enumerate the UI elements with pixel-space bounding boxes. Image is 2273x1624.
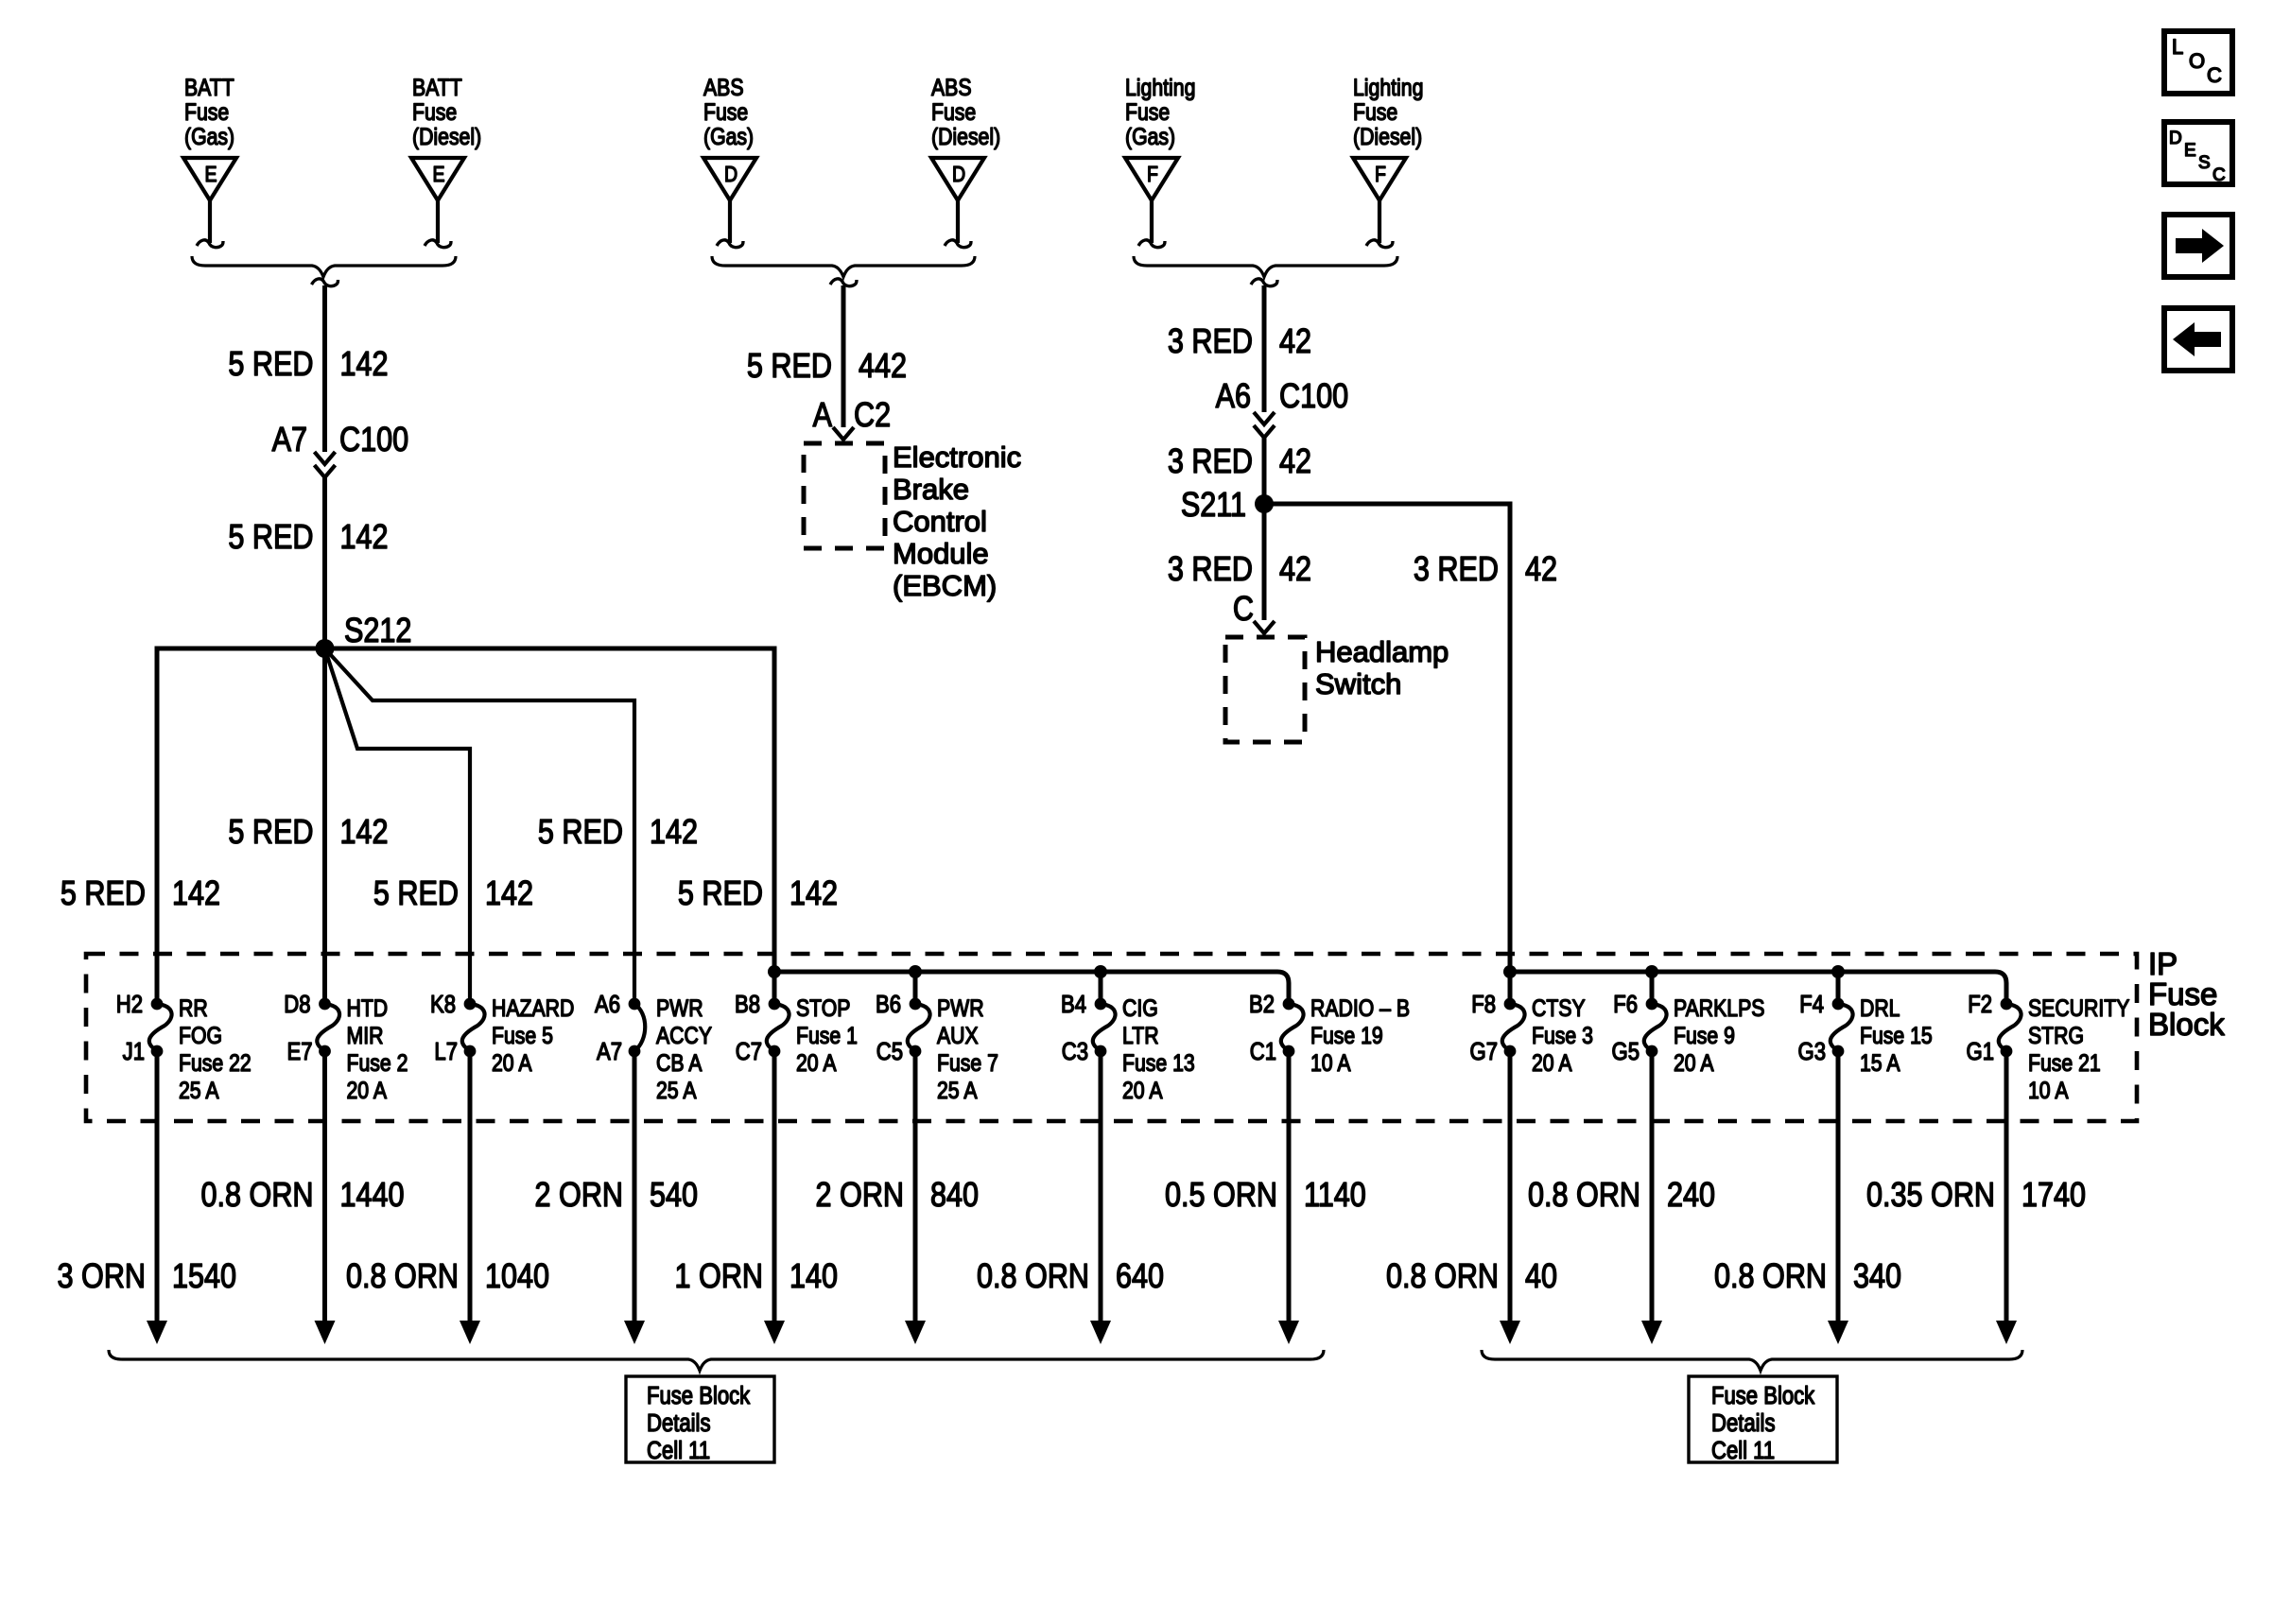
label 5 RED 142 (STOP feed) — [678, 875, 838, 913]
junction F6 bus — [1645, 965, 1658, 978]
svg-text:42: 42 — [1279, 323, 1311, 361]
svg-text:(Gas): (Gas) — [184, 123, 234, 149]
wire 5 RED 142 (below C100) — [322, 477, 327, 648]
svg-text:15 A: 15 A — [1860, 1049, 1900, 1076]
bus wire inside fuse block feeding CTSY/PARKLPS/DRL/SECURITY — [1510, 972, 2006, 1004]
wire 5 RED 442 (ABS feed) — [842, 285, 846, 427]
svg-text:D: D — [2169, 129, 2182, 148]
svg-text:O: O — [2189, 49, 2205, 73]
svg-text:Fuse: Fuse — [1353, 98, 1397, 125]
svg-text:25 A: 25 A — [179, 1077, 219, 1103]
svg-text:840: 840 — [930, 1177, 979, 1215]
svg-text:E: E — [204, 163, 217, 187]
svg-text:Fuse: Fuse — [1125, 98, 1170, 125]
brace grouping left fuse outputs — [109, 1350, 1324, 1371]
svg-text:H2: H2 — [116, 991, 143, 1018]
svg-text:C: C — [2212, 165, 2226, 185]
svg-text:STRG: STRG — [2028, 1022, 2084, 1048]
brace joining Lighting fuses — [1134, 256, 1397, 277]
svg-text:D: D — [952, 163, 965, 187]
svg-text:10 A: 10 A — [2028, 1077, 2069, 1103]
svg-text:142: 142 — [650, 814, 698, 852]
brace grouping right fuse outputs — [1482, 1350, 2022, 1371]
IP Fuse Block dashed boundary — [86, 954, 2137, 1121]
svg-text:Lighting: Lighting — [1353, 74, 1423, 100]
svg-text:D8: D8 — [284, 991, 310, 1018]
svg-text:142: 142 — [340, 346, 389, 384]
svg-text:142: 142 — [485, 875, 533, 913]
svg-text:Module: Module — [893, 537, 989, 570]
svg-text:(Gas): (Gas) — [1125, 123, 1175, 149]
junction B6 bus — [909, 965, 922, 978]
svg-text:F8: F8 — [1471, 991, 1496, 1018]
svg-text:ABS: ABS — [931, 74, 972, 100]
label 0.8 ORN 640 — [977, 1258, 1164, 1296]
fuse F2 HTD MIR 20A pins D8/E7 — [284, 991, 408, 1103]
svg-text:G5: G5 — [1612, 1038, 1640, 1065]
svg-text:5 RED: 5 RED — [373, 875, 459, 913]
svg-text:HTD: HTD — [347, 994, 389, 1021]
wire hook below ABS brace — [830, 279, 857, 286]
Headlamp Switch — [1225, 635, 1449, 742]
connector C100 pin A7 (in-line) — [272, 422, 409, 477]
label 5 RED 142 — [228, 519, 388, 557]
connector C100 pin A6 (in-line) — [1216, 378, 1349, 438]
wire 2 ORN 540 output from A7 — [624, 1051, 645, 1344]
svg-text:20 A: 20 A — [347, 1077, 388, 1103]
svg-text:Fuse Block: Fuse Block — [1711, 1382, 1815, 1409]
junction B4 bus — [1094, 965, 1107, 978]
bus wire inside fuse block feeding STOP/PWR AUX/CIG LTR/RADIO-B — [774, 972, 1289, 1004]
svg-text:2 ORN: 2 ORN — [535, 1177, 623, 1215]
svg-text:0.8 ORN: 0.8 ORN — [977, 1258, 1089, 1296]
svg-text:C100: C100 — [1279, 378, 1348, 416]
svg-text:K8: K8 — [430, 991, 456, 1018]
svg-text:0.8 ORN: 0.8 ORN — [1386, 1258, 1499, 1296]
fuse F1 STOP 20A pins B8/C7 — [735, 991, 858, 1076]
svg-text:ABS: ABS — [703, 74, 744, 100]
svg-text:C: C — [1233, 591, 1254, 629]
fuse F9 PARKLPS 20A pins F6/G5 — [1612, 991, 1765, 1076]
svg-text:DRL: DRL — [1860, 994, 1900, 1021]
wire 0.8 ORN 40 output from G7 — [1500, 1051, 1520, 1344]
label 0.8 ORN 240 — [1528, 1177, 1715, 1215]
brace joining BATT fuses — [192, 256, 456, 277]
svg-text:Fuse: Fuse — [412, 98, 457, 125]
svg-text:5 RED: 5 RED — [538, 814, 623, 852]
fuse F13 CIG LTR 20A pins B4/C3 — [1061, 991, 1195, 1103]
wire 0.8 ORN 340 output from G3 — [1828, 1051, 1848, 1344]
svg-text:B6: B6 — [876, 991, 901, 1018]
wire 3 RED 42 (C100 to S211) — [1262, 438, 1267, 504]
svg-text:(Gas): (Gas) — [703, 123, 754, 149]
svg-text:D: D — [724, 163, 737, 187]
svg-text:BATT: BATT — [412, 74, 462, 100]
svg-text:A7: A7 — [272, 422, 307, 459]
svg-text:Fuse 1: Fuse 1 — [796, 1022, 858, 1048]
svg-text:1540: 1540 — [172, 1258, 236, 1296]
svg-text:20 A: 20 A — [796, 1049, 837, 1076]
svg-text:L: L — [2172, 35, 2183, 59]
svg-text:C2: C2 — [854, 397, 891, 435]
wire 3 ORN 1540 output from J1 — [147, 1051, 167, 1344]
svg-text:LTR: LTR — [1122, 1022, 1159, 1048]
svg-text:0.8 ORN: 0.8 ORN — [1528, 1177, 1640, 1215]
svg-text:C: C — [2207, 63, 2222, 87]
wire 3 RED 42 (S211 to headlamp switch) — [1262, 504, 1267, 620]
svg-text:3 RED: 3 RED — [1414, 551, 1499, 589]
svg-text:CIG: CIG — [1122, 994, 1158, 1021]
svg-text:25 A: 25 A — [656, 1077, 697, 1103]
fuse F22 RR FOG 25A pins H2/J1 — [116, 991, 252, 1103]
Electronic Brake Control Module (EBCM) — [804, 441, 1021, 602]
icon box DESC — [2164, 122, 2232, 185]
svg-text:3 RED: 3 RED — [1168, 323, 1253, 361]
svg-text:5 RED: 5 RED — [61, 875, 146, 913]
svg-text:42: 42 — [1279, 551, 1311, 589]
svg-text:20 A: 20 A — [1532, 1049, 1572, 1076]
svg-text:Fuse 2: Fuse 2 — [347, 1049, 408, 1076]
svg-text:SECURITY: SECURITY — [2028, 994, 2129, 1021]
svg-text:240: 240 — [1667, 1177, 1715, 1215]
svg-text:Fuse 19: Fuse 19 — [1310, 1022, 1383, 1048]
junction F4 bus — [1831, 965, 1845, 978]
label 2 ORN 540 — [535, 1177, 698, 1215]
label 5 RED 142 (HAZARD feed) — [373, 875, 533, 913]
label 5 RED 142 — [228, 346, 388, 384]
svg-text:J1: J1 — [123, 1038, 145, 1065]
fuse F21 SECURITY STRG 10A pins F2/G1 — [1967, 991, 2130, 1103]
svg-text:Switch: Switch — [1315, 667, 1401, 700]
svg-text:Fuse 21: Fuse 21 — [2028, 1049, 2101, 1076]
svg-text:Cell 11: Cell 11 — [647, 1437, 710, 1464]
svg-text:142: 142 — [340, 814, 389, 852]
junction B8 bus — [768, 965, 781, 978]
svg-text:10 A: 10 A — [1310, 1049, 1351, 1076]
svg-text:F4: F4 — [1799, 991, 1824, 1018]
svg-text:STOP: STOP — [796, 994, 850, 1021]
svg-text:C100: C100 — [339, 422, 408, 459]
svg-text:S212: S212 — [344, 613, 411, 650]
svg-text:0.8 ORN: 0.8 ORN — [346, 1258, 459, 1296]
svg-text:C7: C7 — [736, 1038, 762, 1065]
wire 0.8 ORN 640 output from C3 — [1090, 1051, 1111, 1344]
label 3 ORN 1540 — [58, 1258, 237, 1296]
label IP Fuse Block — [2148, 946, 2225, 1042]
fuse F5 HAZARD 20A pins K8/L7 — [430, 991, 574, 1076]
label 3 RED 42 — [1168, 443, 1311, 481]
svg-text:Fuse Block: Fuse Block — [647, 1382, 751, 1409]
icon box arrow right — [2164, 215, 2232, 277]
svg-text:5 RED: 5 RED — [228, 519, 313, 557]
label 5 RED 142 (PWR ACCY feed) — [538, 814, 698, 852]
svg-text:3 RED: 3 RED — [1168, 443, 1253, 481]
svg-text:BATT: BATT — [184, 74, 234, 100]
label 1 ORN 140 — [675, 1258, 838, 1296]
svg-text:Fuse 15: Fuse 15 — [1860, 1022, 1933, 1048]
fuse F19 RADIO-B 10A pins B2/C1 — [1249, 991, 1410, 1076]
connector C2 pin A into EBCM — [813, 397, 892, 440]
svg-text:Lighting: Lighting — [1125, 74, 1195, 100]
svg-text:F2: F2 — [1968, 991, 1992, 1018]
label 0.8 ORN 1040 — [346, 1258, 549, 1296]
svg-text:Fuse: Fuse — [184, 98, 229, 125]
label 3 RED 42 — [1168, 551, 1311, 589]
wire hook below BATT brace — [312, 279, 338, 286]
svg-text:B2: B2 — [1249, 991, 1275, 1018]
svg-text:G1: G1 — [1967, 1038, 1994, 1065]
svg-text:Fuse: Fuse — [931, 98, 976, 125]
fuse F15 DRL 15A pins F4/G3 — [1798, 991, 1933, 1076]
svg-text:40: 40 — [1525, 1258, 1557, 1296]
svg-text:PWR: PWR — [937, 994, 984, 1021]
svg-text:G7: G7 — [1470, 1038, 1498, 1065]
svg-text:25 A: 25 A — [937, 1077, 978, 1103]
svg-text:140: 140 — [789, 1258, 838, 1296]
wire 0.8 ORN 1440 output from E7 — [315, 1051, 336, 1344]
svg-text:L7: L7 — [434, 1038, 458, 1065]
wire S212 straight down to HTD MIR feed — [322, 648, 327, 1004]
svg-text:Brake: Brake — [893, 473, 969, 506]
svg-text:RADIO – B: RADIO – B — [1310, 994, 1410, 1021]
svg-text:PWR: PWR — [656, 994, 703, 1021]
svg-text:3 ORN: 3 ORN — [58, 1258, 146, 1296]
svg-text:42: 42 — [1279, 443, 1311, 481]
wire 0.35 ORN 1740 output from G1 — [1996, 1051, 2017, 1344]
svg-text:HAZARD: HAZARD — [492, 994, 574, 1021]
svg-text:B8: B8 — [735, 991, 760, 1018]
label 0.5 ORN 1140 — [1165, 1177, 1366, 1215]
svg-text:3 RED: 3 RED — [1168, 551, 1253, 589]
svg-text:20 A: 20 A — [1674, 1049, 1714, 1076]
svg-text:S: S — [2198, 153, 2211, 173]
svg-text:(EBCM): (EBCM) — [893, 569, 997, 602]
svg-text:A7: A7 — [597, 1038, 622, 1065]
svg-text:A6: A6 — [1216, 378, 1251, 416]
svg-text:1740: 1740 — [2021, 1177, 2086, 1215]
fuse F3 CTSY 20A pins F8/G7 — [1470, 991, 1593, 1076]
wire 3 RED 42 (Lighting feed) — [1262, 285, 1267, 412]
brace joining ABS fuses — [712, 256, 975, 277]
svg-text:E7: E7 — [286, 1038, 312, 1065]
label 5 RED 142 (HTD MIR feed) — [228, 814, 388, 852]
svg-text:1 ORN: 1 ORN — [675, 1258, 763, 1296]
svg-text:C1: C1 — [1250, 1038, 1276, 1065]
svg-text:F6: F6 — [1613, 991, 1638, 1018]
wire branch left from S212 to RR FOG feed — [157, 648, 325, 1004]
wire 0.8 ORN 1040 output from L7 — [460, 1051, 480, 1344]
svg-text:Cell 11: Cell 11 — [1711, 1437, 1775, 1464]
svg-text:(Diesel): (Diesel) — [412, 123, 481, 149]
svg-text:Fuse 7: Fuse 7 — [937, 1049, 998, 1076]
icon box arrow left — [2164, 308, 2232, 371]
svg-text:ACCY: ACCY — [656, 1022, 712, 1048]
splice S212 — [316, 613, 412, 658]
label 5 RED 142 (RR FOG feed) — [61, 875, 220, 913]
svg-text:5 RED: 5 RED — [678, 875, 763, 913]
svg-text:0.35 ORN: 0.35 ORN — [1866, 1177, 1995, 1215]
svg-text:AUX: AUX — [937, 1022, 979, 1048]
svg-text:C5: C5 — [876, 1038, 903, 1065]
wire branch right from S212 to STOP feed — [325, 648, 775, 1004]
Fuse Block Details Cell 11 (left) — [626, 1376, 774, 1464]
svg-text:1040: 1040 — [485, 1258, 549, 1296]
svg-text:MIR: MIR — [347, 1022, 384, 1048]
wire diagonal branch from S212 to HAZARD feed — [325, 648, 471, 1004]
wire 2 ORN 840 output from C5 — [905, 1051, 926, 1344]
svg-text:F: F — [1147, 163, 1158, 187]
label 0.8 ORN 340 — [1714, 1258, 1901, 1296]
svg-text:Fuse 9: Fuse 9 — [1674, 1022, 1735, 1048]
wire 1 ORN 140 output from C7 — [764, 1051, 785, 1344]
svg-text:142: 142 — [172, 875, 220, 913]
connector pin C into headlamp switch — [1233, 591, 1275, 633]
Fuse Block Details Cell 11 (right) — [1689, 1376, 1837, 1464]
svg-text:E: E — [2184, 141, 2196, 161]
svg-text:Block: Block — [2148, 1007, 2225, 1042]
svg-text:540: 540 — [650, 1177, 698, 1215]
svg-text:Headlamp: Headlamp — [1315, 635, 1449, 668]
svg-text:S211: S211 — [1181, 487, 1246, 525]
svg-text:Fuse 22: Fuse 22 — [179, 1049, 252, 1076]
svg-text:20 A: 20 A — [492, 1049, 532, 1076]
svg-text:20 A: 20 A — [1122, 1077, 1163, 1103]
svg-text:340: 340 — [1853, 1258, 1901, 1296]
svg-text:CB A: CB A — [656, 1049, 703, 1076]
svg-text:142: 142 — [340, 519, 389, 557]
label 3 RED 42 (right branch) — [1414, 551, 1557, 589]
wire 0.5 ORN 1140 output from C1 — [1278, 1051, 1299, 1344]
svg-text:42: 42 — [1525, 551, 1557, 589]
svg-text:A6: A6 — [595, 991, 620, 1018]
svg-text:FOG: FOG — [179, 1022, 222, 1048]
svg-text:C3: C3 — [1062, 1038, 1088, 1065]
svg-text:A: A — [813, 397, 833, 435]
label 5 RED 442 — [747, 348, 907, 386]
svg-text:5 RED: 5 RED — [228, 346, 313, 384]
svg-text:CTSY: CTSY — [1532, 994, 1586, 1021]
fuse F7 PWR AUX 25A pins B6/C5 — [876, 991, 998, 1103]
svg-text:RR: RR — [179, 994, 208, 1021]
svg-text:Fuse 5: Fuse 5 — [492, 1022, 553, 1048]
svg-text:1140: 1140 — [1304, 1177, 1366, 1215]
svg-text:Details: Details — [647, 1409, 711, 1437]
svg-text:E: E — [432, 163, 444, 187]
svg-text:5 RED: 5 RED — [747, 348, 832, 386]
svg-text:142: 142 — [789, 875, 838, 913]
label 0.8 ORN 40 — [1386, 1258, 1557, 1296]
svg-text:Fuse: Fuse — [703, 98, 748, 125]
svg-text:Details: Details — [1711, 1409, 1776, 1437]
wire hook below Lighting brace — [1251, 279, 1277, 286]
svg-text:PARKLPS: PARKLPS — [1674, 994, 1764, 1021]
wire 3 RED 42 branch right from S211 to CTSY feed — [1264, 504, 1510, 1004]
svg-text:Fuse 3: Fuse 3 — [1532, 1022, 1593, 1048]
label 0.35 ORN 1740 — [1866, 1177, 2086, 1215]
svg-text:0.5 ORN: 0.5 ORN — [1165, 1177, 1277, 1215]
svg-text:G3: G3 — [1798, 1038, 1826, 1065]
wire diagonal branch from S212 to PWR ACCY feed — [325, 648, 635, 1004]
junction F8 bus — [1503, 965, 1517, 978]
svg-text:5 RED: 5 RED — [228, 814, 313, 852]
label 0.8 ORN 1440 — [201, 1177, 405, 1215]
label 2 ORN 840 — [816, 1177, 979, 1215]
svg-text:Control: Control — [893, 505, 987, 538]
svg-text:Electronic: Electronic — [893, 441, 1021, 474]
circuit breaker CB A PWR ACCY 25A pins A6/A7 — [595, 991, 712, 1103]
svg-text:0.8 ORN: 0.8 ORN — [1714, 1258, 1827, 1296]
svg-text:0.8 ORN: 0.8 ORN — [201, 1177, 314, 1215]
svg-text:B4: B4 — [1061, 991, 1086, 1018]
wire 0.8 ORN 240 output from G5 — [1641, 1051, 1662, 1344]
svg-text:(Diesel): (Diesel) — [1353, 123, 1422, 149]
svg-text:640: 640 — [1116, 1258, 1164, 1296]
svg-text:442: 442 — [859, 348, 907, 386]
splice S211 — [1181, 487, 1274, 525]
svg-text:F: F — [1375, 163, 1386, 187]
svg-text:1440: 1440 — [340, 1177, 405, 1215]
svg-text:2 ORN: 2 ORN — [816, 1177, 904, 1215]
wire 5 RED 142 (BATT feed, upper segment) — [322, 285, 327, 452]
icon box LOC — [2164, 31, 2232, 94]
label 3 RED 42 — [1168, 323, 1311, 361]
svg-text:Fuse 13: Fuse 13 — [1122, 1049, 1195, 1076]
svg-text:(Diesel): (Diesel) — [931, 123, 1000, 149]
